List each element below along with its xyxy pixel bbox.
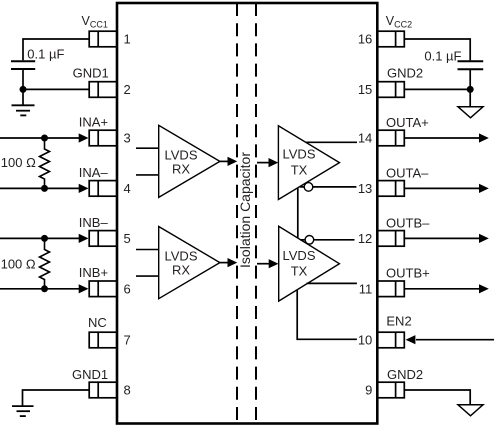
- pin 9 GND2: [365, 367, 423, 398]
- capacitor C2 0.1 uF: [424, 49, 483, 70]
- pin 16 VCC2: [358, 14, 412, 47]
- arrowhead RX A output: [228, 157, 238, 166]
- svg-text:TX: TX: [291, 163, 308, 178]
- junction INB-: [41, 235, 48, 242]
- wire enable TX A to TX B: [297, 188, 299, 238]
- svg-text:0.1 µF: 0.1 µF: [424, 49, 461, 64]
- svg-text:12: 12: [358, 231, 372, 246]
- wire GND1 pin2: [23, 88, 89, 90]
- svg-text:9: 9: [365, 383, 372, 398]
- ground GND1 bottom-left: [12, 406, 34, 416]
- wire C2 to ground: [469, 69, 471, 106]
- wire GND2 pin9: [404, 390, 470, 405]
- svg-text:100 Ω: 100 Ω: [1, 257, 36, 272]
- inverter bubble TX B: [305, 236, 314, 245]
- wire INB- input: [0, 237, 80, 239]
- wire barrier to TX B input: [257, 263, 269, 265]
- inverter bubble TX A: [304, 183, 313, 192]
- svg-text:OUTB+: OUTB+: [386, 266, 430, 281]
- junction INB+: [41, 285, 48, 292]
- op-amp U4 LVDS TX channel A: [278, 126, 339, 200]
- svg-text:GND2: GND2: [387, 66, 423, 81]
- junction INA+: [41, 135, 48, 142]
- svg-text:15: 15: [358, 82, 372, 97]
- pin 10 EN2: [358, 314, 412, 348]
- arrowhead INB+: [79, 284, 89, 293]
- wire RX B output to barrier: [220, 262, 228, 264]
- pin 14 OUTA+: [358, 115, 429, 146]
- wire RX A output to barrier: [220, 160, 228, 162]
- svg-text:TX: TX: [291, 264, 308, 279]
- svg-text:OUTA+: OUTA+: [386, 115, 429, 130]
- wire OUTA+ output: [404, 137, 480, 139]
- svg-text:INB+: INB+: [79, 265, 108, 280]
- pin 3 INA+: [79, 115, 131, 146]
- svg-text:1: 1: [124, 32, 131, 47]
- op-amp U5 LVDS TX channel B: [279, 226, 340, 301]
- wire EN2 input: [416, 339, 494, 341]
- svg-text:RX: RX: [172, 263, 190, 278]
- pin 7 NC: [88, 315, 131, 348]
- arrowhead INA+: [79, 133, 89, 142]
- pin 5 INB-: [79, 215, 131, 246]
- svg-text:11: 11: [359, 281, 373, 296]
- svg-text:GND2: GND2: [387, 367, 423, 382]
- svg-text:GND1: GND1: [72, 367, 108, 382]
- svg-text:16: 16: [358, 32, 372, 47]
- svg-text:LVDS: LVDS: [283, 248, 316, 263]
- wire VCC1 pin1 to bypass cap: [23, 39, 89, 60]
- wire TX B inverted output to pin 12: [300, 239, 354, 241]
- svg-text:100 Ω: 100 Ω: [1, 155, 36, 170]
- svg-text:NC: NC: [88, 315, 107, 330]
- wire OUTB- output: [404, 237, 480, 239]
- pin 15 GND2: [358, 66, 423, 98]
- wire OUTB+ output: [404, 288, 480, 290]
- isolation barrier dashed line left: [236, 3, 238, 424]
- isolation barrier dashed line right: [255, 3, 257, 424]
- pin 8 GND1: [72, 367, 131, 398]
- svg-text:5: 5: [124, 231, 131, 246]
- arrowhead EN2: [406, 335, 416, 344]
- arrowhead OUTB-: [479, 234, 489, 243]
- arrowhead OUTA-: [479, 184, 489, 193]
- junction GND1 net: [20, 86, 27, 93]
- capacitor C1 0.1 uF: [11, 46, 64, 69]
- wire INB+ input: [0, 288, 80, 290]
- svg-text:INA–: INA–: [79, 165, 109, 180]
- wire GND1 pin8: [23, 390, 90, 406]
- svg-text:LVDS: LVDS: [283, 147, 316, 162]
- op-amp U2 LVDS RX channel A: [136, 125, 220, 197]
- pin 13 OUTA-: [358, 165, 429, 196]
- svg-text:VCC1: VCC1: [82, 14, 108, 30]
- pin 11 OUTB+: [359, 266, 430, 297]
- wire TX A output to pin 14: [306, 141, 357, 143]
- svg-text:10: 10: [358, 333, 372, 348]
- resistor R1 100 ohm: [1, 138, 50, 188]
- svg-text:2: 2: [124, 82, 131, 97]
- wire OUTA- output: [404, 187, 480, 189]
- svg-text:GND1: GND1: [73, 66, 109, 81]
- op-amp U3 LVDS RX channel B: [136, 227, 220, 299]
- junction GND2 net: [467, 86, 474, 93]
- svg-text:LVDS: LVDS: [165, 249, 198, 264]
- svg-text:INB–: INB–: [79, 215, 109, 230]
- pin 4 INA-: [79, 165, 131, 196]
- wire INA- input: [0, 187, 80, 189]
- resistor R2 100 ohm: [1, 238, 50, 288]
- svg-text:6: 6: [124, 281, 131, 296]
- svg-text:RX: RX: [172, 161, 190, 176]
- arrowhead TX B input: [269, 259, 279, 268]
- wire TX A inverted output to pin 13: [300, 186, 357, 188]
- wire VCC2 pin16 to bypass cap: [404, 39, 470, 60]
- svg-text:0.1 µF: 0.1 µF: [27, 46, 64, 61]
- arrowhead OUTB+: [479, 284, 489, 293]
- svg-text:13: 13: [358, 181, 372, 196]
- svg-text:7: 7: [124, 333, 131, 348]
- pin 2 GND1: [73, 66, 131, 98]
- arrowhead RX B output: [228, 258, 238, 267]
- svg-text:OUTB–: OUTB–: [386, 215, 430, 230]
- svg-text:INA+: INA+: [79, 115, 108, 130]
- svg-text:LVDS: LVDS: [165, 147, 198, 162]
- wire barrier to TX A input: [257, 162, 269, 164]
- svg-text:3: 3: [124, 131, 131, 146]
- arrowhead OUTA+: [479, 133, 489, 142]
- svg-text:8: 8: [124, 383, 131, 398]
- ground GND2 top-right: [458, 107, 483, 118]
- arrowhead INB-: [79, 234, 89, 243]
- svg-text:OUTA–: OUTA–: [386, 165, 429, 180]
- ground GND1 top-left: [12, 105, 35, 115]
- svg-text:VCC2: VCC2: [386, 14, 412, 30]
- arrowhead INA-: [79, 184, 89, 193]
- ground GND2 bottom-right: [458, 405, 483, 416]
- junction INA-: [41, 185, 48, 192]
- wire INA+ input: [0, 137, 80, 139]
- arrowhead TX A input: [269, 158, 279, 167]
- svg-text:4: 4: [124, 181, 131, 196]
- wire enable TX B to pin 10: [297, 290, 357, 339]
- wire GND2 pin15: [404, 88, 470, 90]
- IC package body U1: [117, 3, 377, 424]
- svg-text:Isolation Capacitor: Isolation Capacitor: [237, 152, 253, 268]
- pin 6 INB+: [79, 265, 131, 297]
- svg-text:EN2: EN2: [386, 314, 411, 329]
- pin 1 VCC1: [82, 14, 131, 47]
- svg-text:14: 14: [358, 131, 372, 146]
- wire TX B output to pin 11: [307, 282, 357, 284]
- pin 12 OUTB-: [358, 215, 430, 246]
- wire C1 to ground: [22, 69, 24, 105]
